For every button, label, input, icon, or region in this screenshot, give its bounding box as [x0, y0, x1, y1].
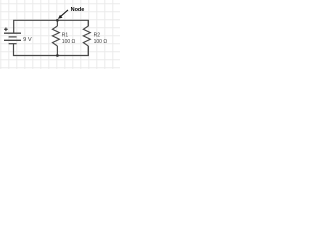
svg-text:R1: R1 — [62, 33, 69, 39]
wire top (node to R2) — [57, 20, 88, 26]
wire bottom (node to R2) — [57, 46, 88, 55]
resistor R1 — [52, 20, 59, 55]
resistor R2 — [83, 20, 90, 55]
node junction dot top — [56, 19, 59, 22]
svg-text:9 V: 9 V — [23, 37, 32, 43]
wire top (battery + to node) — [14, 20, 58, 33]
battery V1 — [4, 28, 21, 44]
wire bottom (battery - to node) — [14, 44, 58, 56]
annotation arrow to node — [58, 10, 68, 19]
svg-text:100 Ω: 100 Ω — [94, 39, 108, 45]
svg-text:100 Ω: 100 Ω — [62, 39, 76, 45]
node junction dot bottom — [56, 54, 59, 57]
svg-text:Node: Node — [71, 7, 85, 13]
svg-text:R2: R2 — [94, 33, 101, 39]
